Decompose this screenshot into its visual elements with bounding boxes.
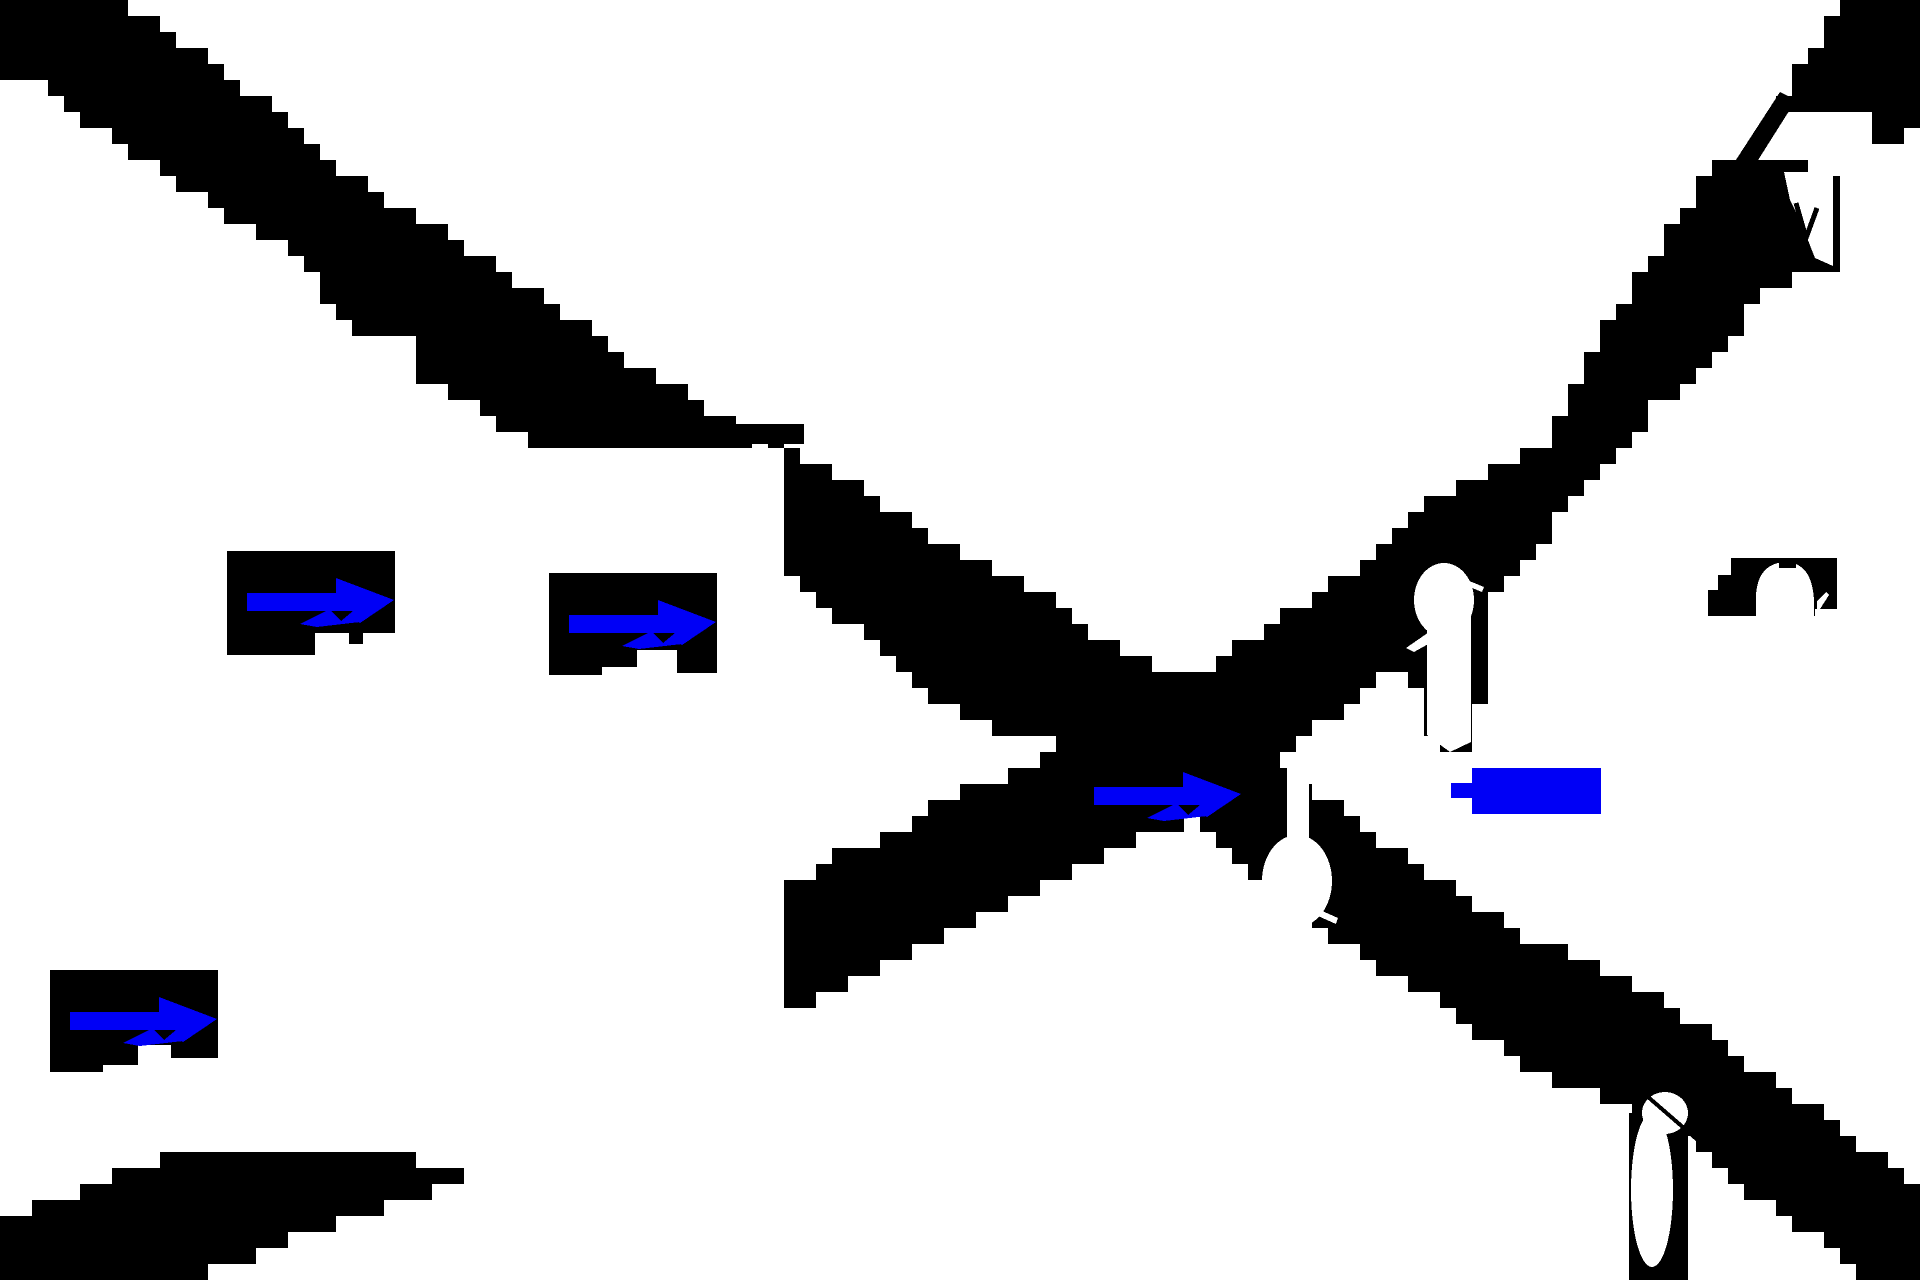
figure person P3 black surround (bottom, on band C) xyxy=(1629,1113,1688,1280)
blue arrow A2 (in sign S2) xyxy=(569,600,716,649)
P3 hat brim line xyxy=(1640,1090,1700,1142)
escalator band B thin tail xyxy=(1732,92,1796,176)
figure person P3 white head and body xyxy=(1631,1092,1688,1267)
light fixture W4 white (top right) xyxy=(1784,172,1833,266)
sign S1 black panel xyxy=(227,551,395,655)
sign S2 black panel xyxy=(549,573,717,675)
blue arrow A1 (in sign S1) xyxy=(247,578,394,627)
figure person P1 white (on band B) xyxy=(1406,563,1484,752)
tunnel arch structure (right middle) xyxy=(1708,558,1837,616)
blue sign S5 (blue rectangle with tab) xyxy=(1451,768,1601,814)
blue arrow A3 (in sign S3) xyxy=(70,997,217,1046)
sign S3 black panel xyxy=(50,970,218,1072)
escalator band A pinch connector xyxy=(720,424,804,444)
blue arrow A4 (center, on crossing) xyxy=(1094,772,1241,821)
figure person P2 white (below crossing) xyxy=(1262,762,1338,927)
